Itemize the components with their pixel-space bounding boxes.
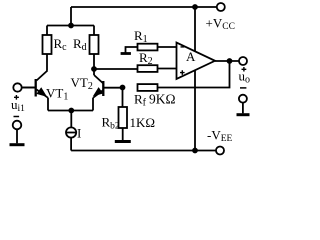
ground post input xyxy=(16,129,18,143)
svg-text:+VCC: +VCC xyxy=(206,16,235,33)
node VT2 collector junction xyxy=(91,66,97,72)
label input minus sign xyxy=(14,116,20,118)
svg-text:-VEE: -VEE xyxy=(207,128,233,145)
terminal output lower xyxy=(239,95,247,103)
node junction bottom rail xyxy=(192,148,198,154)
svg-text:Rf: Rf xyxy=(134,92,147,109)
node emitter junction xyxy=(68,108,74,114)
wire emitter bus xyxy=(48,110,93,112)
wire feedback xyxy=(158,61,230,88)
svg-text:1KΩ: 1KΩ xyxy=(130,115,156,130)
svg-text:R1: R1 xyxy=(134,28,148,45)
svg-text:9KΩ: 9KΩ xyxy=(149,92,176,107)
resistor Rb2 xyxy=(122,88,124,108)
wire vertical from Rc/Rd bus up to top rail xyxy=(70,7,72,26)
node junction top bus xyxy=(68,23,74,29)
wire op-amp output xyxy=(215,60,239,62)
resistor Rd xyxy=(93,26,95,36)
node VT2 base junction xyxy=(120,85,126,91)
resistor Rc xyxy=(46,26,48,36)
node output junction xyxy=(227,58,233,64)
current source I xyxy=(70,111,72,128)
svg-text:Rc: Rc xyxy=(54,36,68,53)
svg-text:A: A xyxy=(186,49,196,64)
terminal input ui1 - xyxy=(13,121,22,130)
ground of R1 xyxy=(126,47,138,53)
ground Rb2 xyxy=(115,140,131,143)
wire op-amp V+ supply from top rail xyxy=(194,7,196,55)
wire bottom rail -Vee xyxy=(71,150,216,152)
svg-text:VT1: VT1 xyxy=(46,86,68,103)
transistor VT2 xyxy=(94,75,103,84)
op-amp minus input sign xyxy=(181,46,185,48)
svg-text:VT2: VT2 xyxy=(71,75,93,92)
wire top rail +Vcc xyxy=(71,6,217,8)
wire op-amp V- supply to bottom rail xyxy=(194,66,196,151)
node junction top rail to op-amp V+ xyxy=(192,4,198,10)
terminal -Vee xyxy=(216,147,224,155)
terminal +Vcc xyxy=(217,3,225,11)
svg-text:uo: uo xyxy=(239,69,251,86)
label output minus sign xyxy=(240,87,246,89)
terminal output + xyxy=(239,57,247,65)
ground post output xyxy=(242,103,244,114)
resistor Rf xyxy=(138,84,158,91)
wire Rc/Rd top bus xyxy=(47,25,94,27)
transistor VT1 xyxy=(37,71,48,81)
svg-text:I: I xyxy=(77,126,81,141)
terminal input ui1 + xyxy=(13,83,21,91)
label output plus sign xyxy=(242,67,247,72)
wire VT2 collector to R2 xyxy=(94,68,138,70)
resistor R1 xyxy=(138,44,158,51)
resistor R2 xyxy=(138,65,158,72)
op-amp plus input sign xyxy=(180,70,185,75)
svg-text:R2: R2 xyxy=(139,50,153,67)
svg-text:Rb2: Rb2 xyxy=(102,115,120,132)
label input plus sign xyxy=(14,95,19,100)
op-amp A triangle xyxy=(177,43,216,80)
svg-text:ui1: ui1 xyxy=(11,97,25,114)
svg-text:Rd: Rd xyxy=(73,36,87,53)
wire input to VT1 base xyxy=(22,87,36,89)
